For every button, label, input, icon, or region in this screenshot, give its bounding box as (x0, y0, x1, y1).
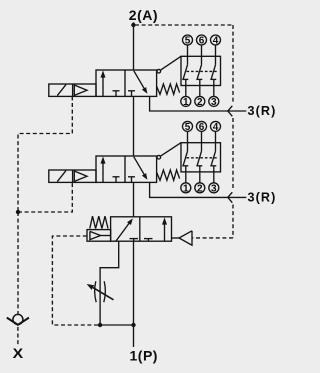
switch block LS1 terminal 5 (183, 35, 193, 45)
switch block LS1 terminal 3 (209, 96, 219, 106)
svg-text:3: 3 (211, 183, 217, 194)
enclosure crossing mark at 3(R) upper (228, 106, 233, 117)
junction dot main line at X line (131, 323, 135, 327)
wire: link from valve V1 pin to switch block LS1 (160, 56, 181, 70)
svg-text:3: 3 (211, 97, 217, 108)
wire: dashed enclosure right border middle (232, 118, 234, 189)
svg-text:1: 1 (183, 97, 189, 108)
wire: valve V2 exhaust to 3(R) (150, 182, 247, 197)
switch block LS2 terminal 3 (209, 183, 219, 193)
wire: dashed exhaust line to valve V3 (193, 237, 233, 239)
junction dot pilot X line (16, 210, 20, 214)
valve V2 spring (157, 170, 180, 180)
valve V3 left-position blocked port T (130, 238, 139, 240)
solenoid SOL2 coil slash (57, 171, 66, 182)
wire: pilot dashed down to check valve (17, 212, 19, 314)
switch block LS2 terminal 5 (183, 121, 193, 131)
valve V1 switch-link pin circle (157, 69, 161, 73)
switch block LS1 contact 1 (182, 45, 188, 97)
valve V2 left-position flow arrow (102, 161, 104, 183)
wire: valve V3 left port step to throttle (100, 241, 119, 325)
wire: dashed enclosure right border lower (232, 205, 234, 238)
junction dot at 2(A) (131, 23, 135, 27)
switch block LS1 terminal 4 (211, 35, 221, 45)
switch block LS2 mechanical coupling (dashed) (187, 157, 218, 159)
valve V3 right-position flow arrow (164, 221, 166, 241)
valve V3 body (111, 217, 172, 241)
switch block LS2 terminal 4 (211, 121, 221, 131)
valve V3 pilot triangle (90, 231, 101, 239)
wire: exhaust stub from valve V3 (172, 237, 180, 239)
valve V3 right-position blocked port T (144, 238, 153, 240)
wire: pilot dashed to valve V3 (52, 236, 98, 325)
valve V1 right-position blocked port T (128, 90, 135, 92)
valve V1 right-position A-to-R flow arrow (134, 71, 145, 89)
valve V1 spring (157, 84, 180, 94)
svg-text:2: 2 (197, 97, 203, 108)
solenoid SOL1 coil slash (57, 85, 66, 96)
wire: dashed enclosure top from 2(A) dot to right border (135, 24, 233, 26)
switch block LS2 terminal 2 (195, 183, 205, 193)
switch block LS1 terminal 1 (181, 96, 191, 106)
valve V1 left-position flow arrow (102, 75, 104, 97)
solenoid SOL2 pilot triangle (74, 171, 87, 181)
wire: main line valve V2 to valve V3 (133, 182, 135, 216)
valve V2 right-position blocked port T (128, 176, 135, 178)
switch block LS1 mechanical coupling (dashed) (187, 70, 218, 72)
enclosure crossing mark at 3(R) lower (228, 192, 233, 203)
switch block LS2 body (181, 143, 221, 172)
switch block LS1 terminal 6 (197, 35, 207, 45)
switch block LS1 body (181, 56, 221, 85)
svg-text:1: 1 (183, 183, 189, 194)
valve V1 body (96, 70, 157, 96)
switch block LS2 contact 1 (182, 131, 188, 183)
svg-text:2(A): 2(A) (129, 7, 158, 23)
valve V2 body (96, 156, 157, 182)
throttle valve arcs (95, 281, 97, 302)
wire: pilot dashed from SOL1 (18, 96, 72, 212)
switch block LS2 terminal 1 (181, 183, 191, 193)
wire: main line 2(A) to valve V1 top (133, 22, 135, 70)
valve V1 left-position blocked port T (113, 90, 120, 92)
svg-text:3(R): 3(R) (248, 104, 277, 118)
wire: main line valve V1 to valve V2 (133, 96, 135, 156)
valve V3 left-position flow arrow (116, 222, 130, 241)
valve V3 pilot box (87, 230, 111, 242)
throttle valve adjustment arrow (93, 288, 114, 300)
switch block LS1 contact 2 (196, 45, 202, 97)
wire: link from valve V2 pin to switch block LS2 (160, 143, 181, 157)
switch block LS2 terminal 6 (197, 121, 207, 131)
switch block LS2 contact 3 (210, 131, 216, 183)
solenoid SOL2 box (49, 170, 96, 182)
wire: main line valve V3 to 1(P) (133, 241, 135, 347)
wire: pilot dashed from SOL2 (18, 182, 72, 212)
switch block LS1 terminal 2 (195, 96, 205, 106)
exhaust triangle at valve V3 (179, 231, 192, 245)
valve V2 left-position blocked port T (113, 176, 120, 178)
check valve at X port (13, 314, 23, 324)
switch block LS1 contact 3 (210, 45, 216, 97)
svg-text:1(P): 1(P) (130, 347, 158, 363)
svg-text:2: 2 (197, 183, 203, 194)
valve V2 right-position A-to-R flow arrow (134, 157, 145, 175)
valve V2 position divider (124, 156, 126, 182)
wire: dashed below check valve (17, 327, 19, 345)
solenoid SOL1 box (49, 84, 96, 96)
wire: dashed enclosure right border upper (232, 25, 234, 103)
valve V1 position divider (124, 70, 126, 96)
switch block LS2 contact 2 (196, 131, 202, 183)
valve V3 return spring (90, 216, 108, 228)
valve V3 position divider (139, 217, 141, 241)
junction dot throttle branch at X line (98, 323, 102, 327)
svg-text:X: X (13, 346, 24, 361)
solenoid SOL1 pilot triangle (74, 85, 87, 95)
wire: X line horizontal (100, 324, 133, 326)
valve V2 switch-link pin circle (157, 155, 161, 159)
svg-text:3(R): 3(R) (248, 190, 277, 204)
wire: valve V1 exhaust to 3(R) (150, 96, 247, 111)
